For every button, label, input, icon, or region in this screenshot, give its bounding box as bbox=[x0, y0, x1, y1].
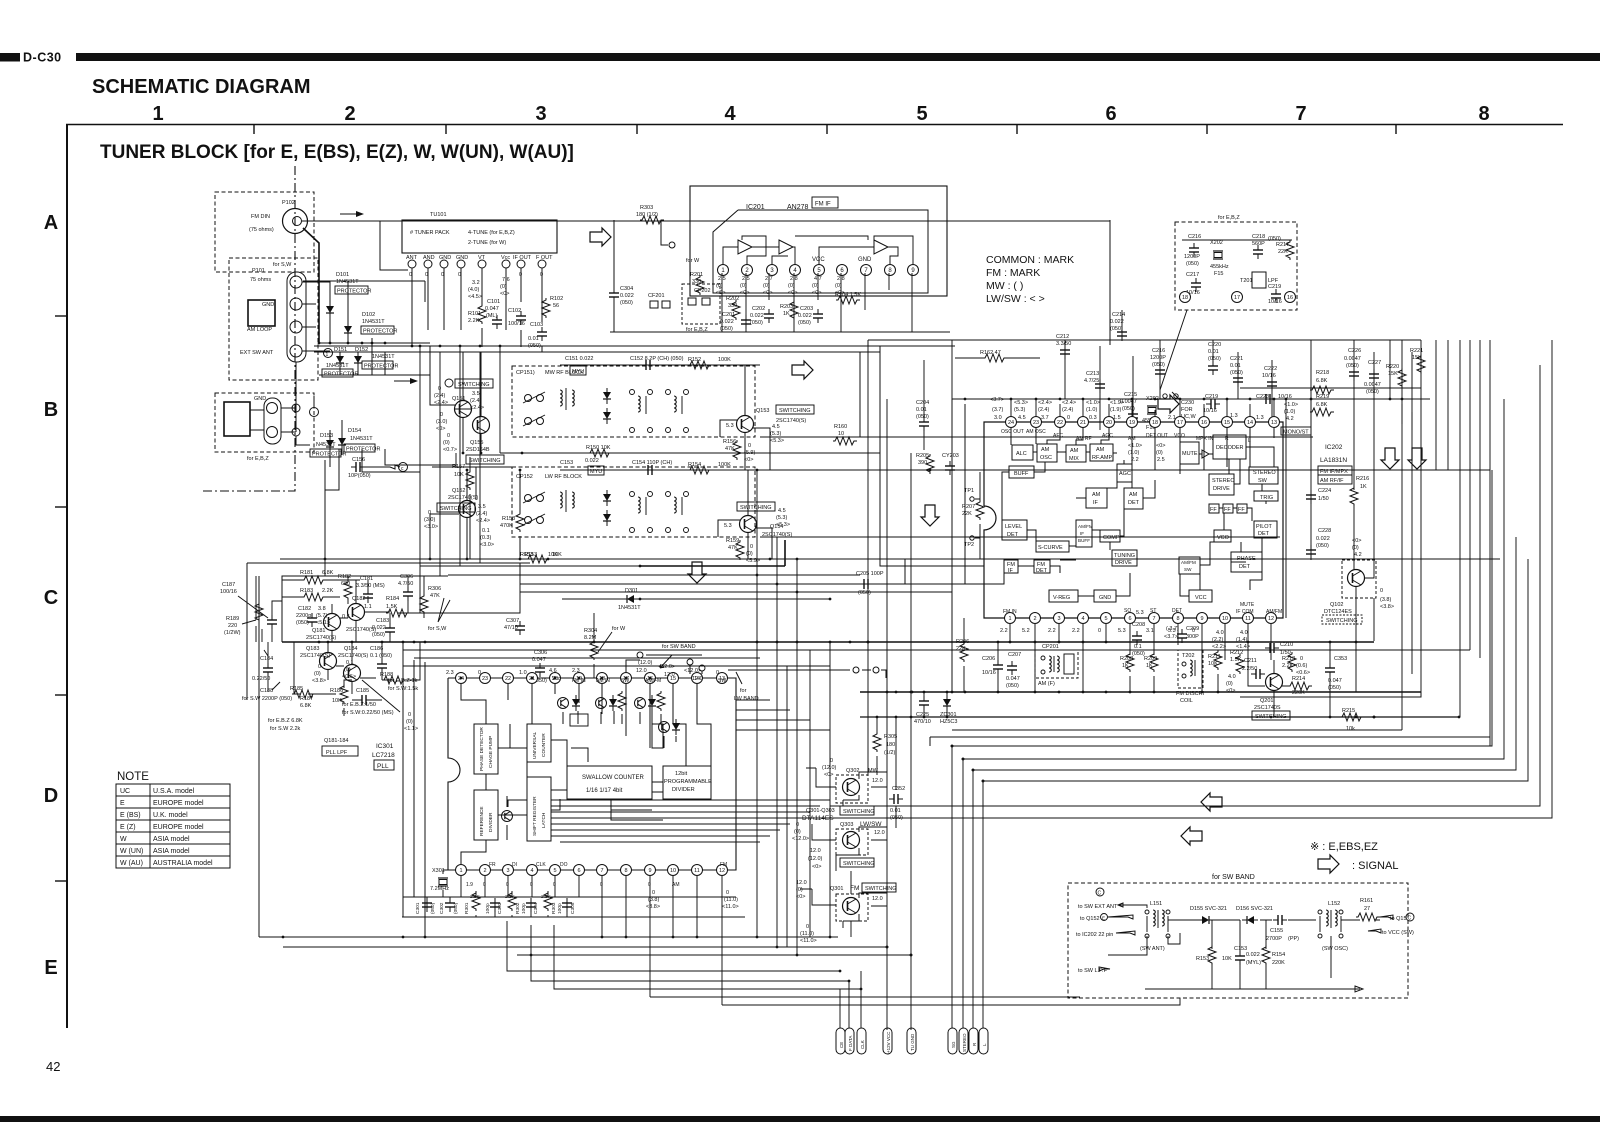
svg-text:C209: C209 bbox=[1186, 626, 1199, 632]
svg-text:for E,B,Z: for E,B,Z bbox=[247, 456, 269, 462]
svg-text:SW: SW bbox=[1258, 478, 1268, 484]
capacitor C206 bbox=[982, 641, 1003, 692]
svg-text:MIX: MIX bbox=[1069, 456, 1079, 462]
svg-text:CE: CE bbox=[839, 1042, 844, 1048]
svg-text:6.8K: 6.8K bbox=[1316, 378, 1328, 384]
transistor int4 bbox=[659, 719, 681, 735]
resistor R182 bbox=[338, 574, 352, 600]
svg-text:D-C30: D-C30 bbox=[23, 51, 62, 65]
svg-text:F DATA: F DATA bbox=[848, 1036, 853, 1051]
transistor int2 bbox=[596, 691, 627, 711]
svg-text:42: 42 bbox=[46, 1059, 60, 1074]
svg-text:0.022: 0.022 bbox=[750, 313, 764, 319]
svg-text:2700P: 2700P bbox=[1266, 936, 1282, 942]
svg-text:SWITCHING: SWITCHING bbox=[843, 861, 874, 867]
capacitor C220 bbox=[1208, 342, 1221, 375]
svg-text:0.022: 0.022 bbox=[1110, 319, 1124, 325]
svg-text:3: 3 bbox=[506, 868, 509, 874]
svg-text:PLL: PLL bbox=[377, 763, 389, 770]
svg-text:0.022: 0.022 bbox=[585, 458, 599, 464]
svg-text:2.2/50: 2.2/50 bbox=[1242, 666, 1257, 672]
svg-text:for W: for W bbox=[686, 258, 700, 264]
functional block BUFF bbox=[1009, 466, 1034, 478]
variable capacitor LW2 bbox=[523, 514, 545, 525]
svg-text:R216: R216 bbox=[1356, 476, 1369, 482]
svg-text:1.9: 1.9 bbox=[466, 882, 473, 888]
svg-text:for S.W 2200P (050): for S.W 2200P (050) bbox=[242, 696, 292, 702]
svg-text:0: 0 bbox=[408, 712, 411, 718]
svg-text:R154: R154 bbox=[688, 462, 701, 468]
svg-text:FF: FF bbox=[1238, 507, 1245, 513]
svg-text:Q181-184: Q181-184 bbox=[324, 738, 348, 744]
wire rail mid1 bbox=[500, 452, 880, 454]
svg-text:<3.0>: <3.0> bbox=[424, 524, 438, 530]
svg-text:1: 1 bbox=[459, 868, 462, 874]
svg-text:100p: 100p bbox=[521, 903, 527, 914]
resistor R218 bbox=[1310, 370, 1334, 394]
switching label Q151 bbox=[445, 379, 493, 388]
resistor R159 bbox=[726, 538, 744, 560]
svg-text:(050): (050) bbox=[916, 414, 929, 420]
resistor R205 bbox=[916, 453, 934, 474]
svg-text:LC7218: LC7218 bbox=[372, 752, 395, 759]
svg-text:12.0: 12.0 bbox=[636, 668, 647, 674]
svg-text:(SW ANT): (SW ANT) bbox=[1140, 946, 1165, 952]
svg-text:17: 17 bbox=[1234, 295, 1240, 301]
svg-text:Q302: Q302 bbox=[846, 768, 859, 774]
capacitor C181 bbox=[356, 576, 385, 603]
functional block COMP bbox=[1100, 530, 1120, 542]
resistor R153 bbox=[520, 552, 558, 563]
wire cascade aux2 bbox=[800, 340, 1552, 818]
svg-text:T202: T202 bbox=[1182, 653, 1195, 659]
svg-text:MPX IN: MPX IN bbox=[1196, 436, 1214, 442]
svg-text:0: 0 bbox=[600, 882, 603, 888]
svg-text:180 (1/2): 180 (1/2) bbox=[636, 212, 658, 218]
transistor Q155 bbox=[466, 417, 490, 454]
svg-text:SO: SO bbox=[1124, 608, 1131, 614]
functional block DECODER bbox=[1213, 435, 1246, 459]
svg-text:5: 5 bbox=[916, 103, 927, 125]
svg-text:C303: C303 bbox=[497, 902, 503, 914]
svg-text:24: 24 bbox=[1008, 420, 1014, 426]
svg-text:EUROPE model: EUROPE model bbox=[153, 800, 204, 807]
svg-text:TUNING: TUNING bbox=[1114, 553, 1135, 559]
svg-text:0: 0 bbox=[806, 924, 809, 930]
svg-text:AM LOOP: AM LOOP bbox=[247, 327, 272, 333]
boundary dash-dot line bbox=[201, 166, 295, 491]
svg-text:5: 5 bbox=[553, 868, 556, 874]
capacitor C202 bbox=[750, 306, 774, 326]
svg-text:<2.4>: <2.4> bbox=[1038, 400, 1052, 406]
pins 1-12 bottom bbox=[1005, 613, 1277, 624]
svg-text:C307: C307 bbox=[506, 618, 519, 624]
functional block LEVEL DET bbox=[1002, 520, 1027, 540]
svg-text:Q102: Q102 bbox=[1330, 602, 1343, 608]
resistor R184 bbox=[386, 596, 410, 617]
svg-text:R102: R102 bbox=[550, 296, 563, 302]
svg-text:4: 4 bbox=[530, 868, 533, 874]
svg-text:<0>: <0> bbox=[1352, 538, 1361, 544]
functional block GND bbox=[1094, 590, 1116, 602]
svg-text:(12.0): (12.0) bbox=[822, 765, 837, 771]
node voltages bottom pins bbox=[1000, 610, 1250, 650]
wire ic301 bottom columns bbox=[427, 876, 722, 1005]
diode D155 SVC-321 bbox=[1190, 906, 1227, 924]
svg-text:DRIVE: DRIVE bbox=[1115, 560, 1132, 566]
svg-text:5.3: 5.3 bbox=[1136, 610, 1144, 616]
svg-text:W (AU): W (AU) bbox=[120, 860, 143, 867]
svg-text:1/50: 1/50 bbox=[1318, 496, 1329, 502]
resistor R101 bbox=[468, 304, 486, 324]
svg-text:470/10: 470/10 bbox=[914, 719, 931, 725]
svg-text:C186: C186 bbox=[370, 646, 383, 652]
resistor R153c bbox=[1196, 945, 1232, 965]
grid ruler top bbox=[66, 124, 1563, 126]
svg-text:0.0047: 0.0047 bbox=[1344, 356, 1361, 362]
switching label Q154 bbox=[737, 502, 775, 511]
svg-text:<11.0>: <11.0> bbox=[722, 904, 739, 910]
svg-text:18: 18 bbox=[1182, 295, 1188, 301]
svg-text:to IC202 22 pin: to IC202 22 pin bbox=[1076, 932, 1113, 938]
svg-text:PHASE DETECTOR: PHASE DETECTOR bbox=[479, 727, 485, 771]
capacitor C210 bbox=[1265, 642, 1293, 656]
svg-text:C213: C213 bbox=[1086, 371, 1099, 377]
label to Q152 bbox=[1080, 914, 1133, 923]
svg-text:<2.4>: <2.4> bbox=[1062, 400, 1076, 406]
svg-text:56: 56 bbox=[553, 303, 559, 309]
diode D154 bbox=[338, 428, 380, 453]
svg-text:AUSTRALIA model: AUSTRALIA model bbox=[153, 860, 213, 867]
wire pll enclosure bbox=[247, 563, 530, 937]
svg-text:MW : ( ): MW : ( ) bbox=[986, 280, 1023, 292]
crystal X301 bbox=[430, 868, 455, 897]
capacitor C218 bbox=[1252, 234, 1281, 259]
svg-text:4: 4 bbox=[724, 103, 736, 125]
functional block PILOT DET bbox=[1254, 521, 1277, 538]
svg-text:Q152: Q152 bbox=[452, 488, 465, 494]
IFT LW1 bbox=[630, 492, 653, 533]
label Q301-Q303 DTA114ES bbox=[802, 806, 874, 822]
connector tag SG bbox=[948, 1028, 957, 1054]
svg-text:SCHEMATIC DIAGRAM: SCHEMATIC DIAGRAM bbox=[92, 76, 311, 98]
svg-text:Q183: Q183 bbox=[306, 646, 319, 652]
svg-text:for S,W: for S,W bbox=[428, 626, 447, 632]
svg-text:C205 100P: C205 100P bbox=[856, 571, 884, 577]
capacitor C183 bbox=[372, 618, 395, 638]
svg-text:(5.9): (5.9) bbox=[744, 450, 755, 456]
svg-text:C217: C217 bbox=[1186, 272, 1199, 278]
wire comb verticals bbox=[1402, 340, 1490, 746]
flip-flop FF3 bbox=[1237, 504, 1247, 513]
resistor R181 bbox=[300, 570, 334, 584]
svg-text:1K: 1K bbox=[783, 311, 790, 317]
svg-text:OSC: OSC bbox=[1040, 455, 1052, 461]
capacitor C307 bbox=[504, 618, 525, 635]
label IC301 LC7218 PLL bbox=[372, 743, 395, 770]
functional block AGC bbox=[1117, 464, 1132, 482]
svg-text:2: 2 bbox=[483, 868, 486, 874]
dashed enclosure AM loop for E,B,Z bbox=[215, 393, 314, 452]
resistor R161 bbox=[1356, 898, 1380, 921]
svg-text:0: 0 bbox=[553, 882, 556, 888]
svg-text:AM: AM bbox=[1041, 447, 1050, 453]
svg-text:R: R bbox=[972, 1042, 977, 1046]
connector tag CE bbox=[836, 989, 845, 1054]
svg-text:12bit: 12bit bbox=[675, 771, 688, 777]
capacitor C155 bbox=[1266, 915, 1299, 942]
svg-text:0.1: 0.1 bbox=[1134, 644, 1142, 650]
svg-text:R201: R201 bbox=[690, 272, 703, 278]
functional block PHASE DET bbox=[1231, 552, 1262, 572]
wire pll to tags bbox=[507, 921, 1180, 1005]
svg-text:LA1831N: LA1831N bbox=[1320, 457, 1347, 464]
signal arrow C230 bbox=[1158, 395, 1179, 413]
svg-text:PROTECTOR: PROTECTOR bbox=[363, 329, 397, 335]
svg-text:R214: R214 bbox=[1292, 676, 1305, 682]
svg-text:2: 2 bbox=[1033, 616, 1036, 622]
svg-text:<3.8>: <3.8> bbox=[646, 904, 660, 910]
svg-text:C228: C228 bbox=[1318, 528, 1331, 534]
svg-text:R301: R301 bbox=[464, 902, 470, 914]
pin 17 bbox=[1232, 292, 1243, 303]
svg-text:R302: R302 bbox=[515, 902, 521, 914]
svg-text:TRIG: TRIG bbox=[1260, 495, 1273, 501]
svg-text:0.01: 0.01 bbox=[1208, 349, 1219, 355]
piezo CF201 bbox=[648, 293, 670, 308]
functional block UNIVERSAL COUNTER bbox=[527, 724, 551, 762]
svg-text:1200P: 1200P bbox=[1184, 254, 1200, 260]
pins 1-12 bottom row bbox=[456, 865, 728, 876]
svg-text:C185: C185 bbox=[356, 688, 369, 694]
svg-text:FF: FF bbox=[1224, 507, 1231, 513]
svg-text:CP201: CP201 bbox=[1042, 644, 1059, 650]
svg-text:0: 0 bbox=[716, 670, 719, 676]
svg-text:8.2M: 8.2M bbox=[584, 635, 597, 641]
capacitor C215 bbox=[1120, 392, 1138, 423]
resistor R305 bbox=[873, 732, 897, 756]
svg-text:for E.B.Z:1/50: for E.B.Z:1/50 bbox=[342, 702, 376, 708]
svg-text:0.1: 0.1 bbox=[346, 660, 354, 666]
svg-text:<3.8>: <3.8> bbox=[1380, 604, 1394, 610]
svg-text:GND: GND bbox=[262, 302, 274, 308]
svg-text:(1.0): (1.0) bbox=[1128, 450, 1139, 456]
svg-text:COUNTER: COUNTER bbox=[541, 733, 547, 757]
svg-text:0.01: 0.01 bbox=[916, 407, 927, 413]
svg-text:<3.8>: <3.8> bbox=[312, 678, 326, 684]
svg-text:2.1: 2.1 bbox=[1168, 415, 1176, 421]
svg-text:0: 0 bbox=[318, 664, 321, 670]
svg-text:<0>: <0> bbox=[763, 290, 772, 296]
svg-text:X202: X202 bbox=[1210, 240, 1223, 246]
svg-text:E: E bbox=[1102, 916, 1105, 921]
capacitor C201 bbox=[720, 312, 751, 332]
label to Q151 C bbox=[1380, 913, 1414, 922]
svg-text:C153: C153 bbox=[560, 460, 573, 466]
svg-text:ASIA model: ASIA model bbox=[153, 836, 190, 843]
svg-text:TU101: TU101 bbox=[430, 212, 447, 218]
svg-text:GND: GND bbox=[1099, 595, 1111, 601]
svg-text:C226: C226 bbox=[1348, 348, 1361, 354]
signal arrow A2 bbox=[590, 228, 611, 246]
svg-text:0.022: 0.022 bbox=[798, 313, 812, 319]
capacitor C225 bbox=[914, 696, 931, 725]
svg-text:470K: 470K bbox=[500, 523, 513, 529]
svg-text:to Q15: to Q15 bbox=[1390, 916, 1407, 922]
svg-text:E (BS): E (BS) bbox=[120, 812, 141, 819]
diode D156 SVC-321 bbox=[1236, 906, 1273, 924]
svg-text:C215: C215 bbox=[1124, 392, 1137, 398]
svg-text:TUNER BLOCK [for E, E(BS), E(Z: TUNER BLOCK [for E, E(BS), E(Z), W, W(UN… bbox=[100, 142, 574, 163]
svg-text:8: 8 bbox=[1478, 103, 1489, 125]
svg-text:R162 47: R162 47 bbox=[980, 350, 1001, 356]
transistor Q303 LW/SW bbox=[836, 821, 885, 855]
transformer L152 SW OSC bbox=[1318, 901, 1348, 952]
svg-text:<5.3>: <5.3> bbox=[770, 438, 784, 444]
capacitor C305 bbox=[557, 898, 576, 914]
svg-text:17: 17 bbox=[1177, 420, 1183, 426]
svg-text:CY203: CY203 bbox=[942, 453, 959, 459]
svg-text:3.7: 3.7 bbox=[1041, 415, 1049, 421]
diode D101 1N4531T bbox=[326, 272, 371, 318]
capacitor C223 bbox=[1256, 394, 1298, 422]
svg-text:0: 0 bbox=[1380, 588, 1383, 594]
diode D102 1N4531T bbox=[344, 312, 397, 338]
svg-text:3.5: 3.5 bbox=[478, 504, 486, 510]
svg-text:0.3: 0.3 bbox=[1089, 415, 1097, 421]
resistor R213 bbox=[1282, 652, 1296, 672]
svg-text:for SW BAND: for SW BAND bbox=[662, 644, 696, 650]
wire rails into ic301 right bbox=[403, 650, 1470, 730]
svg-text:C203: C203 bbox=[800, 306, 813, 312]
svg-text:(2.4): (2.4) bbox=[1038, 407, 1049, 413]
svg-text:(050): (050) bbox=[1346, 363, 1359, 369]
svg-text:VCC: VCC bbox=[812, 257, 825, 263]
svg-text:STEREO: STEREO bbox=[1253, 470, 1276, 476]
svg-text:PHASE: PHASE bbox=[1237, 556, 1256, 562]
svg-text:C102: C102 bbox=[508, 308, 521, 314]
svg-text:P101: P101 bbox=[252, 268, 265, 274]
capacitor C101 bbox=[485, 299, 502, 329]
svg-text:EXT SW ANT: EXT SW ANT bbox=[240, 350, 274, 356]
svg-text:R158: R158 bbox=[502, 516, 515, 522]
wire junction dots bbox=[282, 342, 1404, 957]
svg-text:1N4531T: 1N4531T bbox=[350, 436, 373, 442]
svg-text:<0>: <0> bbox=[1156, 443, 1165, 449]
svg-text:1N4531T: 1N4531T bbox=[362, 319, 385, 325]
svg-text:X202: X202 bbox=[1146, 396, 1159, 402]
svg-text:3: 3 bbox=[1057, 616, 1060, 622]
svg-text:10/16: 10/16 bbox=[1268, 299, 1282, 305]
svg-text:ALC: ALC bbox=[1016, 451, 1027, 457]
svg-text:PILOT: PILOT bbox=[1256, 524, 1273, 530]
boxed label MONO/ST bbox=[1281, 427, 1311, 436]
svg-text:C219: C219 bbox=[1268, 284, 1281, 290]
svg-text:2SC1740(S): 2SC1740(S) bbox=[448, 495, 478, 501]
svg-text:<1.0>: <1.0> bbox=[1086, 400, 1100, 406]
TU101 box bbox=[402, 220, 557, 253]
svg-text:F15: F15 bbox=[1214, 271, 1223, 277]
svg-text:(1.9): (1.9) bbox=[1110, 407, 1121, 413]
svg-text:<0>: <0> bbox=[716, 290, 725, 296]
resistor R189 bbox=[224, 602, 263, 636]
functional block VCC bbox=[1189, 590, 1212, 602]
crystal X202 bbox=[1210, 240, 1229, 277]
svg-text:CLK: CLK bbox=[860, 1040, 865, 1049]
svg-text:3.1: 3.1 bbox=[1146, 628, 1154, 634]
functional block V-REG bbox=[1049, 590, 1078, 602]
svg-text:(050): (050) bbox=[296, 620, 309, 626]
capacitor C219 bbox=[1268, 284, 1282, 305]
svg-text:AM: AM bbox=[1092, 492, 1101, 498]
wire cascade SG bbox=[952, 470, 1492, 1028]
svg-text:7: 7 bbox=[600, 868, 603, 874]
svg-text:DET OUT: DET OUT bbox=[1146, 433, 1168, 439]
capacitor C205 bbox=[845, 571, 905, 596]
svg-text:MUTE: MUTE bbox=[1240, 602, 1255, 608]
svg-text:220K: 220K bbox=[1292, 690, 1305, 696]
svg-text:( 3.7): ( 3.7) bbox=[1166, 626, 1179, 632]
resistor R157 bbox=[452, 457, 474, 559]
dashed enclosure FM antenna bbox=[215, 192, 314, 272]
capacitor C302 bbox=[439, 898, 459, 914]
connector tag TU GND bbox=[907, 1028, 916, 1054]
zener ZD301 bbox=[940, 695, 957, 725]
svg-text:2.2: 2.2 bbox=[1000, 628, 1008, 634]
svg-text:(1.0): (1.0) bbox=[1086, 407, 1097, 413]
svg-text:SWITCHING: SWITCHING bbox=[865, 886, 896, 892]
switching label Q303 bbox=[840, 858, 874, 867]
wire pins down bbox=[722, 273, 912, 332]
pin labels bottom bbox=[1003, 602, 1282, 615]
svg-text:100K: 100K bbox=[718, 357, 731, 363]
wire am loop bbox=[250, 408, 296, 432]
svg-text:DET: DET bbox=[1036, 568, 1048, 574]
svg-text:47K: 47K bbox=[430, 593, 440, 599]
svg-text:C210: C210 bbox=[1280, 642, 1293, 648]
functional block FM IF bbox=[1004, 560, 1018, 574]
wire ic202 internals bbox=[1002, 428, 1274, 596]
wire rf right links bbox=[860, 346, 880, 453]
signal arrow mid down bbox=[921, 505, 939, 526]
svg-text:390: 390 bbox=[918, 460, 927, 466]
functional block TUNING DRIVE bbox=[1112, 550, 1137, 566]
IFT LW2 bbox=[666, 492, 689, 533]
IFT MW2 bbox=[666, 390, 689, 433]
svg-text:<1.9>: <1.9> bbox=[1110, 400, 1124, 406]
svg-text:RF.AMP: RF.AMP bbox=[1092, 455, 1113, 461]
svg-text:0.1: 0.1 bbox=[482, 528, 490, 534]
svg-text:C184: C184 bbox=[260, 656, 273, 662]
resistor R214 bbox=[1288, 676, 1312, 696]
wire cascade STEREO bbox=[963, 399, 1504, 1028]
svg-text:CF202: CF202 bbox=[694, 288, 711, 294]
wire section frame right bbox=[1240, 692, 1421, 697]
svg-text:P102: P102 bbox=[282, 200, 295, 206]
resistor R306 bbox=[420, 586, 441, 614]
svg-text:9: 9 bbox=[648, 868, 651, 874]
svg-text:AM RF: AM RF bbox=[1076, 436, 1092, 442]
svg-text:Q303: Q303 bbox=[840, 822, 853, 828]
capacitor C226 bbox=[1344, 348, 1361, 381]
wire cascade L bbox=[983, 559, 1528, 1028]
capacitor C301 bbox=[415, 898, 436, 914]
svg-text:R305: R305 bbox=[884, 734, 897, 740]
svg-text:SW: SW bbox=[1184, 567, 1192, 572]
svg-text:V-REG: V-REG bbox=[1053, 595, 1070, 601]
svg-text:SWALLOW COUNTER: SWALLOW COUNTER bbox=[582, 775, 644, 781]
capacitor C224 bbox=[1306, 488, 1331, 504]
